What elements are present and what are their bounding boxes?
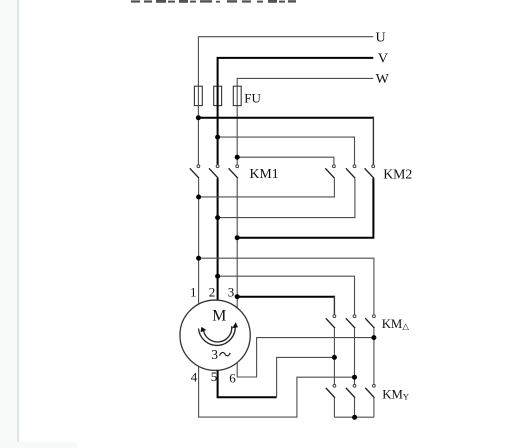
wire KMdelta pole1 down to KMY pole1 bbox=[333, 328, 335, 384]
wire phase3 fuse to KM1 pole3 bbox=[236, 86, 238, 164]
wire motor terminal 5 lower run bbox=[218, 370, 277, 397]
wire line3 KM1 pole3 down to motor terminal 3 bbox=[236, 178, 238, 308]
wire W supply line bbox=[237, 78, 373, 86]
wire W-phase feed to KM2 pole1 bbox=[237, 157, 334, 164]
contactor KM2 pole 1 bbox=[325, 165, 335, 178]
wire KM2 pole3 return to line3 bbox=[237, 178, 373, 238]
junction dot line1 KM2 return bbox=[196, 195, 201, 200]
motor M1 circle bbox=[180, 300, 250, 370]
wire V-phase feed to KM2 pole2 bbox=[218, 137, 355, 164]
junction dot star bar bbox=[352, 415, 357, 420]
junction dot line1 fuse bus bbox=[196, 115, 201, 120]
svg-text:M: M bbox=[212, 308, 226, 325]
wire terminal 5 riser to KMdelta pole1 junction bbox=[277, 357, 335, 397]
wire line1 feed to KMdelta pole3 bbox=[199, 258, 374, 314]
wire KMdelta pole1 top riser bbox=[333, 296, 335, 315]
wire line2 KM1 pole2 down to motor terminal 2 bbox=[217, 178, 219, 300]
svg-text:V: V bbox=[378, 52, 388, 67]
contactor KMY pole 2 bbox=[346, 384, 356, 397]
cut-off title text bbox=[131, 0, 296, 3]
contactor KMdelta pole 3 bbox=[365, 315, 375, 328]
fuse FU phase 2 bbox=[214, 86, 222, 105]
wire KMY pole bottoms to star bar bbox=[334, 398, 374, 417]
contactor KMdelta pole 2 bbox=[346, 315, 356, 328]
contactor KMdelta pole 1 bbox=[326, 315, 336, 328]
wire motor terminal 4 to KMY pole2 junction bbox=[199, 366, 355, 417]
wire KM2 pole1 return to line1 bbox=[199, 178, 335, 197]
wire U-phase feed to KM2 pole3 bbox=[198, 117, 374, 119]
svg-text:1: 1 bbox=[190, 284, 197, 299]
svg-text:4: 4 bbox=[191, 370, 198, 385]
wire phase1 fuse to KM1 pole1 bbox=[197, 86, 199, 164]
junction dot KMdelta pole3 wire6 bbox=[371, 335, 376, 340]
wire KM2 pole2 return to line2 bbox=[218, 178, 355, 217]
svg-text:W: W bbox=[376, 72, 390, 87]
motor rotation arrows bbox=[199, 326, 236, 346]
contactor KM1 pole 2 bbox=[209, 165, 219, 178]
svg-text:6: 6 bbox=[229, 371, 236, 386]
svg-text:KM1: KM1 bbox=[250, 166, 279, 181]
contactor KMY pole 3 bbox=[365, 384, 375, 397]
wire V supply line bbox=[218, 58, 374, 86]
junction dot terminal 3 bbox=[235, 294, 240, 299]
wire phase2 fuse to KM1 pole2 bbox=[217, 86, 219, 164]
svg-text:FU: FU bbox=[244, 91, 261, 106]
wire KMdelta pole3 down to KMY pole3 bbox=[373, 328, 375, 384]
wire motor terminal 6 to KMdelta pole3 junction bbox=[237, 338, 374, 377]
svg-text:2: 2 bbox=[209, 284, 216, 299]
contactor KM2 pole 3 bbox=[365, 165, 375, 178]
junction dot line2 KMdelta feed bbox=[215, 274, 220, 279]
wire line3 feed to KMdelta pole1 bbox=[237, 296, 335, 298]
svg-text:U: U bbox=[376, 31, 386, 46]
wire U supply line bbox=[198, 37, 373, 86]
junction dot KMdelta pole1 wire5 bbox=[332, 355, 337, 360]
junction dot KMY pole2 wire4 bbox=[352, 375, 357, 380]
fuse FU phase 3 bbox=[233, 86, 241, 105]
junction dot line1 KMdelta feed bbox=[196, 256, 201, 261]
contactor KM1 pole 1 bbox=[190, 165, 200, 178]
contactor KM2 pole 2 bbox=[346, 165, 356, 178]
junction dot line3 KM2 feed bbox=[235, 155, 240, 160]
wire KM2 pole3 top riser bbox=[372, 117, 374, 165]
wire line1 KM1 pole1 down to motor terminal 1 bbox=[198, 178, 200, 304]
junction dot line3 KM2 return bbox=[235, 235, 240, 240]
svg-text:5: 5 bbox=[211, 369, 218, 384]
fuse FU phase 1 bbox=[194, 86, 202, 105]
junction dot line2 KM2 return bbox=[215, 215, 220, 220]
contactor KM1 pole 3 bbox=[229, 165, 239, 178]
svg-text:3: 3 bbox=[211, 347, 218, 362]
wire line2 feed to KMdelta pole2 bbox=[218, 276, 355, 314]
svg-text:3: 3 bbox=[228, 284, 235, 299]
svg-text:KM2: KM2 bbox=[383, 167, 412, 182]
contactor KMY pole 1 bbox=[326, 384, 336, 397]
junction dot line2 KM2 feed bbox=[215, 135, 220, 140]
star point bar bbox=[334, 416, 374, 418]
wire KMdelta pole2 down to KMY pole2 bbox=[354, 328, 356, 384]
